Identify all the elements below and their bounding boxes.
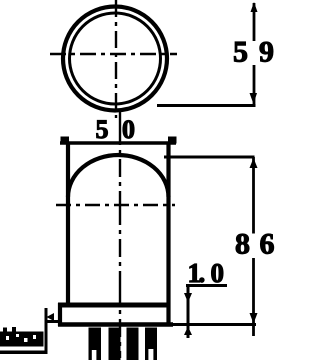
lead bar D	[145, 328, 157, 360]
side view right side line	[166, 142, 170, 326]
dim 8.6 bottom arrow	[250, 313, 258, 324]
side view left side line	[66, 142, 70, 306]
dim 1.0 leader underline	[186, 284, 227, 287]
side view vertical centerline	[119, 111, 121, 358]
svg-text:6: 6	[260, 228, 275, 261]
flange top line	[58, 303, 170, 308]
cropped dimension text band	[0, 332, 44, 347]
top view outer circle	[63, 7, 167, 111]
svg-text:8: 8	[235, 228, 250, 261]
side view horizontal centerline	[56, 204, 175, 206]
flange left edge	[58, 303, 62, 326]
dim 5.0 left end tick	[61, 137, 70, 144]
dim 5.0 right end tick	[168, 137, 177, 144]
dim 1.0 dimension line	[187, 285, 190, 338]
flange bottom extension line	[173, 323, 256, 326]
lead bar C	[127, 328, 139, 360]
bottom-left dim vertical extension line	[45, 308, 48, 353]
top view horizontal centerline	[50, 53, 177, 55]
flange bottom line	[58, 322, 173, 327]
dim 5.9 dimension line	[253, 3, 256, 41]
dim 1.0 up arrow	[184, 327, 192, 336]
dim 5.9 top arrow	[251, 2, 258, 12]
dim 5.9 bottom extension line	[157, 104, 256, 107]
bottom-left text underline	[0, 351, 48, 355]
dim 1.0 down arrow	[184, 293, 192, 303]
lead bar B	[109, 328, 121, 360]
dim 8.6 top extension line	[164, 156, 255, 159]
dim 5.0 dimension line	[60, 141, 176, 144]
svg-text:5: 5	[233, 36, 248, 69]
dim 8.6 dimension line	[252, 157, 255, 234]
bottom-left dim horizontal line	[46, 320, 59, 323]
svg-text:0: 0	[211, 258, 225, 288]
top view vertical centerline	[115, 0, 117, 118]
svg-text:.: .	[199, 258, 206, 288]
svg-text:9: 9	[259, 36, 274, 69]
dim 8.6 top arrow	[250, 158, 258, 168]
top view inner circle	[70, 13, 161, 104]
dim 5.9 bottom arrow	[250, 93, 258, 104]
svg-text:5: 5	[96, 115, 109, 144]
dome	[68, 155, 169, 197]
bottom-left arrow	[47, 313, 55, 321]
lead bar A	[89, 328, 102, 360]
svg-text:0: 0	[122, 115, 135, 144]
